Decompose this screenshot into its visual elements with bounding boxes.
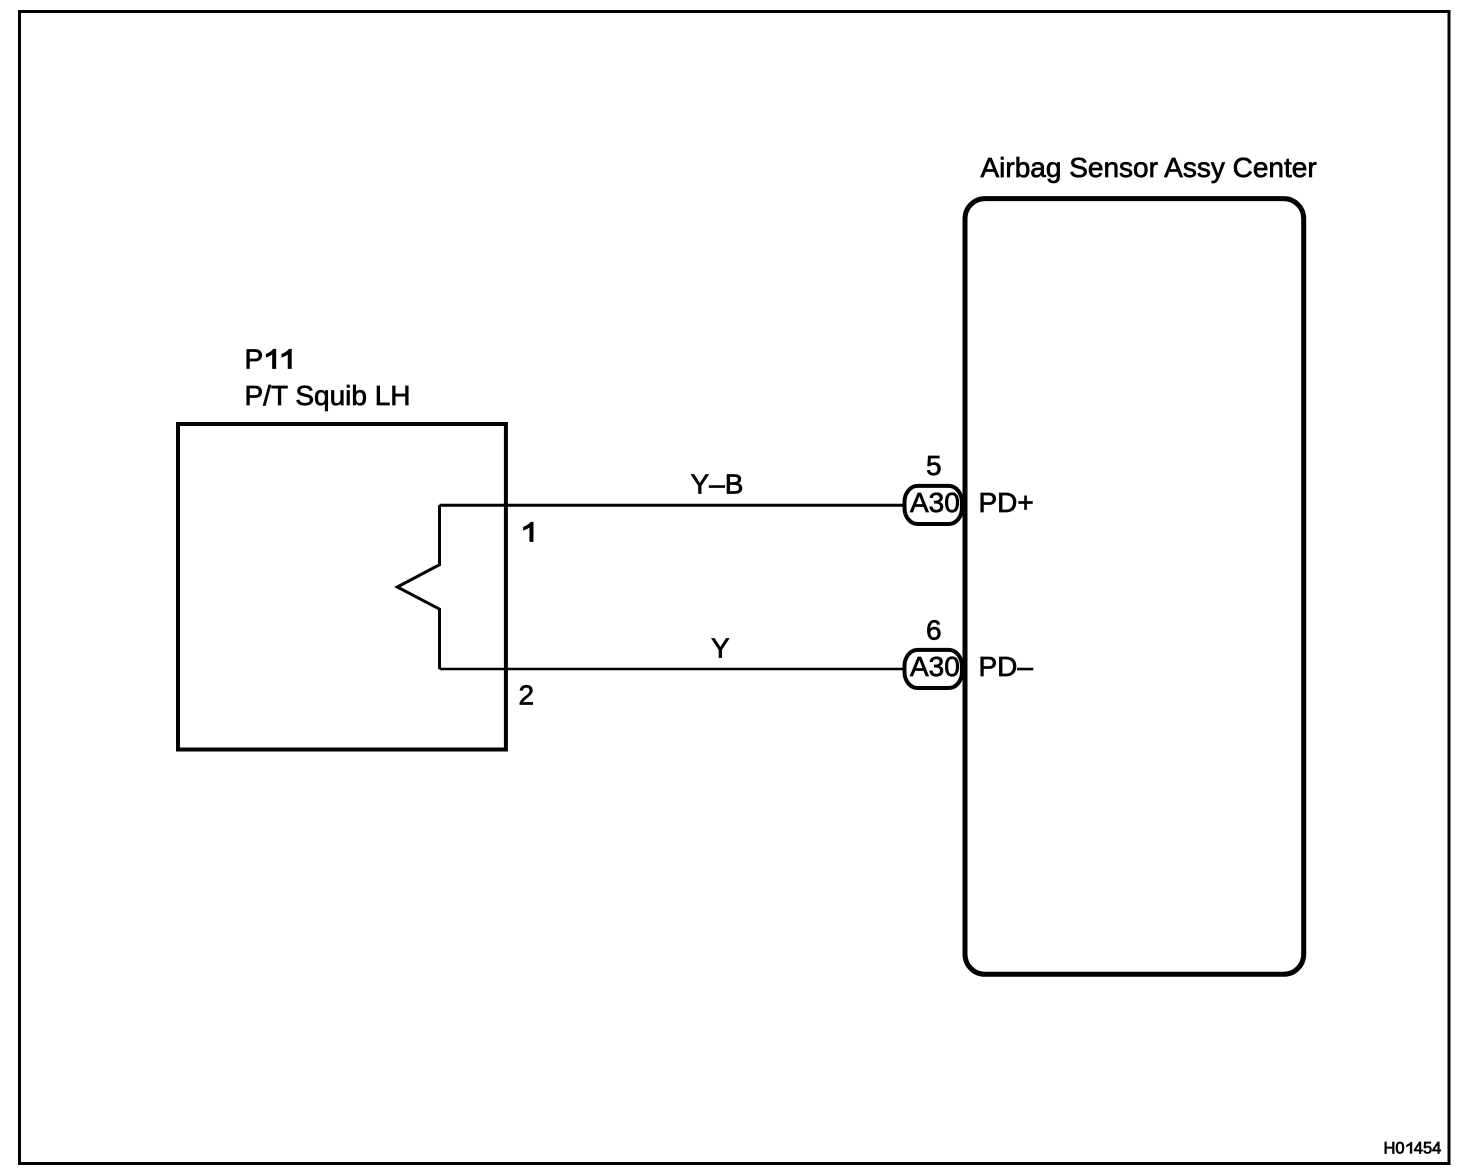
svg-text:P: P <box>245 344 264 375</box>
svg-text:Y–B: Y–B <box>691 469 744 500</box>
svg-text:2: 2 <box>519 680 535 711</box>
svg-text:A30: A30 <box>910 487 960 518</box>
svg-text:H0: H0 <box>1384 1140 1405 1158</box>
svg-text:A30: A30 <box>910 651 960 682</box>
svg-text:PD–: PD– <box>979 651 1034 682</box>
svg-text:PD+: PD+ <box>979 487 1034 518</box>
svg-text:Y: Y <box>711 633 730 664</box>
svg-text:6: 6 <box>926 615 942 646</box>
svg-text:Airbag Sensor Assy Center: Airbag Sensor Assy Center <box>981 152 1317 183</box>
svg-text:454: 454 <box>1414 1140 1442 1158</box>
svg-text:P/T Squib LH: P/T Squib LH <box>245 380 411 411</box>
svg-text:5: 5 <box>926 450 942 481</box>
